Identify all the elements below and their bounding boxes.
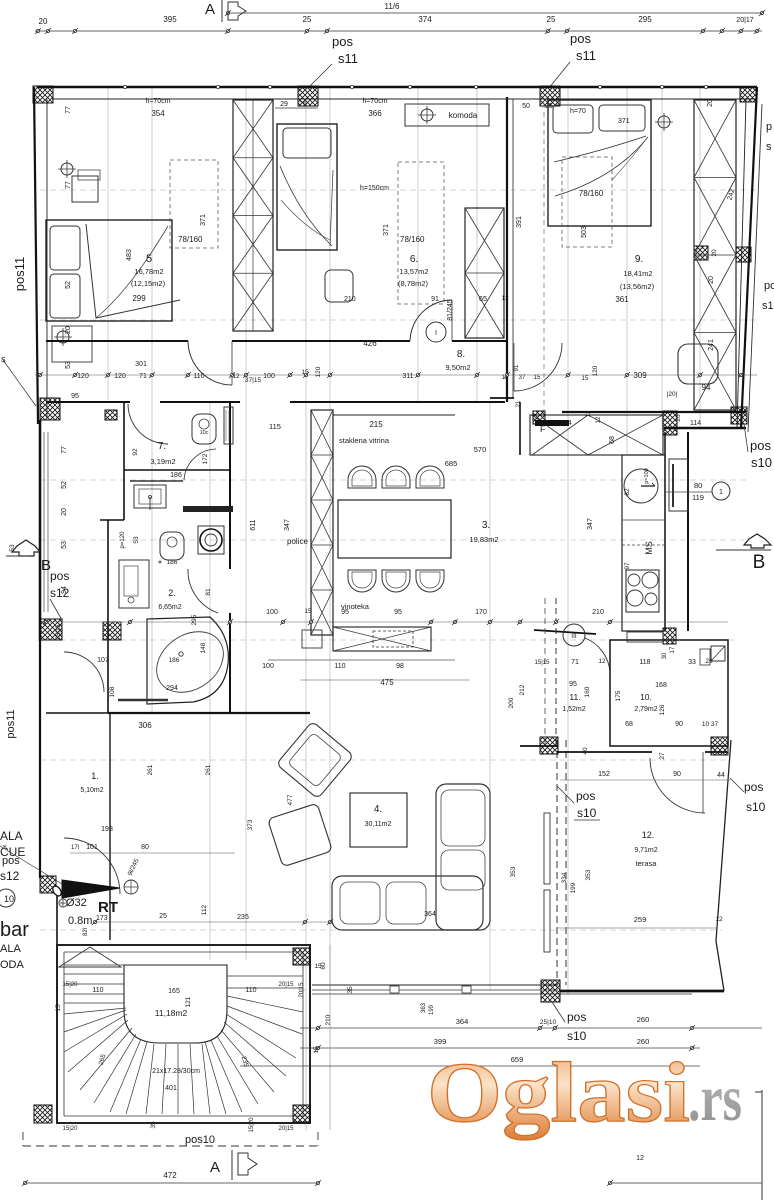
svg-text:198: 198 — [101, 826, 113, 833]
svg-text:A: A — [205, 1, 215, 18]
svg-text:235: 235 — [237, 914, 249, 921]
svg-text:212: 212 — [519, 684, 526, 695]
svg-text:114: 114 — [690, 420, 701, 427]
svg-text:118: 118 — [639, 659, 650, 666]
svg-text:bar: bar — [0, 919, 29, 941]
svg-text:15: 15 — [314, 963, 322, 970]
svg-text:100: 100 — [263, 373, 275, 380]
svg-text:F: F — [540, 424, 546, 434]
outer wall right slanted — [741, 87, 757, 428]
svg-text:10: 10 — [4, 894, 14, 904]
svg-text:94: 94 — [702, 383, 711, 392]
svg-text:186: 186 — [167, 559, 178, 566]
svg-text:29: 29 — [280, 101, 288, 108]
svg-text:12: 12 — [715, 916, 723, 923]
outer wall left — [34, 87, 38, 424]
svg-text:9.: 9. — [635, 254, 643, 265]
posts under room 10-11 — [540, 737, 558, 754]
svg-text:20|15: 20|15 — [279, 1126, 295, 1132]
svg-text:pos: pos — [750, 438, 771, 453]
svg-text:371: 371 — [383, 224, 390, 236]
svg-text:pos: pos — [50, 569, 69, 583]
room9 bottom wall — [562, 411, 746, 413]
svg-text:120: 120 — [315, 366, 322, 377]
room 5 desk and chair — [72, 176, 98, 202]
wall post hatched top-left — [33, 86, 53, 103]
svg-text:3.: 3. — [482, 520, 490, 531]
svg-text:299: 299 — [132, 294, 146, 303]
svg-text:p=100: p=100 — [644, 468, 650, 483]
svg-text:5,10m2: 5,10m2 — [80, 787, 103, 794]
svg-text:11,18m2: 11,18m2 — [155, 1008, 188, 1018]
room9 door arc — [514, 343, 562, 391]
right step wall y428 — [664, 427, 746, 429]
bottom dim line 472 — [25, 1182, 318, 1184]
terrace right wall — [716, 740, 731, 941]
svg-text:15: 15 — [582, 376, 589, 382]
svg-text:20: 20 — [708, 276, 715, 284]
svg-text:37|15: 37|15 — [245, 377, 262, 384]
svg-text:82l: 82l — [83, 928, 89, 936]
post at rail — [541, 980, 560, 1002]
wall post wardrobe mid — [694, 246, 708, 260]
room 11 door arc — [585, 638, 610, 672]
room1 door arc — [64, 652, 104, 692]
room7 door arc b — [184, 449, 216, 480]
svg-text:95: 95 — [71, 393, 79, 400]
svg-text:361: 361 — [615, 295, 629, 304]
room 9 lamp — [658, 116, 670, 128]
bathtub corner — [147, 617, 228, 704]
svg-text:108: 108 — [109, 686, 116, 697]
svg-text:92: 92 — [132, 448, 139, 456]
stairwell posts — [34, 1105, 52, 1123]
svg-text:160: 160 — [584, 686, 591, 697]
pos10 dashed outline — [23, 1145, 318, 1147]
svg-text:100: 100 — [266, 609, 278, 616]
room7 door arc — [128, 404, 168, 444]
svg-text:10 37: 10 37 — [702, 721, 719, 728]
svg-text:40: 40 — [582, 747, 589, 755]
svg-text:165: 165 — [168, 988, 180, 995]
svg-text:100: 100 — [262, 663, 274, 670]
svg-text:s10: s10 — [577, 806, 597, 820]
stair void — [124, 965, 227, 1043]
stair fan left — [64, 1008, 126, 1014]
svg-text:168: 168 — [655, 682, 667, 689]
svg-text:15: 15 — [534, 375, 541, 381]
svg-text:h=70cm: h=70cm — [362, 98, 387, 105]
svg-text:10.: 10. — [640, 692, 652, 702]
svg-text:347: 347 — [587, 518, 594, 530]
svg-text:215: 215 — [369, 420, 383, 429]
room10 fixture — [711, 646, 725, 661]
svg-text:s12: s12 — [0, 869, 20, 883]
svg-text:120: 120 — [114, 373, 126, 380]
svg-text:570: 570 — [474, 445, 487, 454]
svg-text:353: 353 — [585, 869, 592, 880]
svg-text:98: 98 — [396, 663, 404, 670]
room 5 ceiling lamp — [61, 163, 73, 175]
svg-text:12: 12 — [501, 295, 509, 302]
washing machine — [198, 526, 224, 554]
svg-text:20: 20 — [39, 17, 48, 26]
svg-text:77: 77 — [65, 106, 72, 114]
svg-text:s11: s11 — [338, 51, 358, 66]
svg-text:2,79m2: 2,79m2 — [634, 706, 657, 713]
stair treads left horizontals — [64, 973, 124, 975]
svg-text:301: 301 — [135, 361, 147, 368]
svg-text:82: 82 — [624, 488, 631, 496]
svg-text:20|15: 20|15 — [299, 982, 305, 998]
svg-text:8.: 8. — [457, 349, 465, 360]
sofa L — [436, 784, 490, 930]
svg-text:175: 175 — [615, 690, 622, 701]
svg-text:90: 90 — [675, 721, 683, 728]
stair roof triangle — [59, 947, 121, 967]
room 4 label box / coffee table — [350, 793, 407, 847]
room7 toilet — [192, 414, 216, 444]
svg-text:50: 50 — [522, 103, 530, 110]
svg-text:15: 15 — [304, 608, 312, 615]
svg-text:81: 81 — [205, 588, 212, 596]
svg-text:472: 472 — [163, 1171, 177, 1180]
dining table — [338, 500, 451, 558]
svg-text:p: p — [766, 121, 772, 133]
svg-text:395: 395 — [163, 15, 177, 24]
svg-text:107: 107 — [97, 657, 109, 664]
svg-text:119: 119 — [692, 493, 704, 502]
svg-text:364: 364 — [456, 1017, 469, 1026]
svg-text:15|20: 15|20 — [63, 982, 79, 988]
svg-text:97: 97 — [624, 562, 631, 570]
svg-text:ALA: ALA — [0, 943, 21, 955]
terrace 12 left dashed wall — [556, 740, 558, 985]
svg-text:1.: 1. — [91, 771, 99, 781]
svg-text:pos11: pos11 — [5, 709, 17, 738]
svg-text:s: s — [1, 354, 6, 364]
svg-text:81/245: 81/245 — [447, 299, 454, 321]
room 9 wardrobe right — [694, 100, 736, 410]
svg-text:|20|: |20| — [667, 391, 678, 398]
corridor room 8 top wall — [46, 340, 188, 342]
svg-text:25: 25 — [547, 15, 556, 24]
svg-text:366: 366 — [368, 109, 382, 118]
svg-text:terasa: terasa — [636, 859, 658, 868]
svg-text:17l: 17l — [71, 845, 79, 851]
svg-text:33: 33 — [688, 659, 696, 666]
svg-text:199: 199 — [570, 882, 577, 893]
svg-text:Ø32: Ø32 — [66, 897, 87, 909]
svg-text:pos: pos — [332, 34, 353, 49]
svg-text:1: 1 — [719, 489, 723, 496]
svg-text:7.: 7. — [158, 441, 166, 452]
terrace top wall — [520, 745, 557, 747]
kitchen sink — [624, 469, 658, 503]
room5 door arc — [188, 341, 232, 385]
top overall dimension line 1176 — [228, 12, 762, 14]
svg-text:5: 5 — [146, 253, 152, 265]
svg-text:77: 77 — [65, 181, 72, 189]
svg-text:6,65m2: 6,65m2 — [158, 604, 181, 611]
room1 door arc stairs — [64, 838, 120, 894]
svg-text:306: 306 — [138, 721, 152, 730]
svg-text:pos: pos — [567, 1010, 586, 1024]
room 6 bed — [277, 124, 337, 250]
svg-text:78/160: 78/160 — [400, 235, 425, 244]
living bottom rail — [312, 984, 558, 986]
svg-text:95: 95 — [394, 609, 402, 616]
svg-text:19,83m2: 19,83m2 — [469, 535, 498, 544]
svg-text:261: 261 — [147, 764, 154, 775]
svg-text:15|20: 15|20 — [63, 1126, 79, 1132]
svg-text:126: 126 — [659, 704, 666, 715]
svg-text:371: 371 — [618, 118, 630, 125]
svg-text:6.: 6. — [410, 254, 418, 265]
svg-text:20: 20 — [65, 326, 72, 334]
svg-text:295: 295 — [638, 15, 652, 24]
svg-text:12.: 12. — [642, 830, 655, 840]
svg-text:1,52m2: 1,52m2 — [562, 706, 585, 713]
svg-text:260: 260 — [637, 1015, 650, 1024]
left wall post y400 — [40, 398, 60, 420]
svg-text:115: 115 — [269, 422, 281, 431]
svg-text:483: 483 — [126, 249, 133, 261]
svg-text:259: 259 — [634, 915, 647, 924]
svg-text:264: 264 — [560, 420, 572, 427]
outer wall top — [38, 86, 757, 89]
svg-text:371: 371 — [200, 214, 207, 226]
svg-text:s10: s10 — [567, 1029, 587, 1043]
room2 door arc — [188, 569, 218, 613]
svg-text:210: 210 — [344, 296, 356, 303]
living armchair rotated — [276, 721, 353, 799]
svg-text:Oglasi: Oglasi — [427, 1044, 690, 1140]
wall post right slant mid — [736, 247, 751, 262]
sideboard under table — [268, 659, 455, 661]
svg-text:35: 35 — [347, 986, 354, 994]
dims bottom rows — [300, 1027, 762, 1029]
svg-text:152: 152 — [598, 771, 610, 778]
bathroom 7 walls — [123, 402, 125, 470]
terrace door arc — [650, 758, 705, 813]
komoda box — [405, 104, 489, 126]
svg-text:s10: s10 — [746, 800, 766, 814]
svg-text:95: 95 — [569, 681, 577, 688]
svg-text:A: A — [210, 1159, 220, 1176]
svg-text:401: 401 — [165, 1085, 177, 1092]
room 9 closet dashed — [562, 157, 612, 247]
svg-text:311: 311 — [402, 373, 413, 380]
svg-text:364: 364 — [424, 911, 436, 918]
wall post hatched top b — [540, 86, 560, 106]
svg-text:h=70cm: h=70cm — [145, 98, 170, 105]
svg-text:21x17.28/30cm: 21x17.28/30cm — [152, 1068, 200, 1075]
room7 bottom dark wall — [183, 506, 233, 512]
svg-text:426: 426 — [363, 339, 377, 348]
svg-text:9,50m2: 9,50m2 — [445, 363, 470, 372]
svg-text:staklena vitrina: staklena vitrina — [339, 436, 390, 445]
svg-text:s1: s1 — [762, 300, 774, 312]
svg-text:I: I — [435, 330, 437, 337]
kitchen column — [622, 455, 665, 631]
svg-text:295: 295 — [191, 614, 198, 625]
wall post hatched top a — [298, 86, 318, 106]
svg-text:121: 121 — [185, 996, 192, 1007]
post near room7 — [105, 410, 117, 420]
svg-text:91: 91 — [514, 364, 520, 371]
svg-text:12: 12 — [636, 1155, 644, 1162]
svg-text:94: 94 — [61, 586, 68, 594]
svg-text:15|20: 15|20 — [249, 1117, 255, 1133]
svg-text:68: 68 — [609, 436, 616, 444]
svg-text:(12,15m2): (12,15m2) — [131, 279, 166, 288]
svg-text:363: 363 — [421, 1002, 427, 1013]
svg-text:71: 71 — [571, 659, 579, 666]
svg-text:III: III — [571, 633, 577, 640]
svg-text:11.: 11. — [569, 692, 580, 702]
vanity with basin — [134, 485, 166, 508]
svg-text:20: 20 — [711, 249, 718, 257]
svg-text:27: 27 — [659, 752, 666, 760]
svg-text:112: 112 — [201, 904, 208, 915]
svg-text:pos: pos — [576, 789, 595, 803]
right tall cabinet — [669, 459, 688, 511]
svg-text:12: 12 — [596, 416, 602, 423]
svg-text:(13,56m2): (13,56m2) — [620, 282, 655, 291]
svg-text:25: 25 — [545, 103, 553, 110]
svg-text:9,71m2: 9,71m2 — [634, 847, 657, 854]
svg-text:16,78m2: 16,78m2 — [134, 267, 163, 276]
RT radiator assembly — [40, 876, 56, 893]
svg-text:25: 25 — [303, 15, 312, 24]
svg-text:3,19m2: 3,19m2 — [150, 457, 175, 466]
svg-text:334: 334 — [561, 872, 568, 883]
svg-text:374: 374 — [418, 15, 432, 24]
svg-text:25: 25 — [299, 101, 307, 108]
room 9 bed — [548, 100, 651, 226]
svg-text:78/160: 78/160 — [178, 235, 203, 244]
svg-text:53: 53 — [9, 544, 16, 552]
svg-text:110: 110 — [334, 663, 345, 670]
room 1 right wall — [109, 713, 111, 940]
svg-text:475: 475 — [380, 678, 394, 687]
room 5 lamp low — [57, 331, 69, 343]
svg-text:p=120: p=120 — [120, 531, 126, 549]
stair treads bottom verticals — [146, 1044, 154, 1114]
svg-text:25: 25 — [159, 913, 167, 920]
corridor bottom wall — [46, 401, 130, 403]
svg-text:ODA: ODA — [0, 959, 25, 971]
svg-text:78/160: 78/160 — [579, 189, 604, 198]
svg-text:210: 210 — [325, 1014, 332, 1025]
svg-text:25|15: 25|15 — [56, 624, 62, 640]
stair top flight line — [64, 964, 124, 966]
svg-text:199: 199 — [429, 1004, 435, 1015]
svg-text:pos: pos — [744, 780, 763, 794]
svg-text:18,41m2: 18,41m2 — [623, 269, 652, 278]
svg-text:80: 80 — [694, 481, 702, 490]
svg-text:10c: 10c — [200, 430, 209, 436]
svg-text:(8,78m2): (8,78m2) — [398, 279, 429, 288]
svg-text:309: 309 — [633, 371, 647, 380]
svg-text:391: 391 — [516, 216, 523, 228]
svg-text:.rs: .rs — [688, 1062, 742, 1135]
svg-text:20: 20 — [707, 99, 714, 107]
svg-text:35: 35 — [150, 1121, 157, 1129]
top dimension line row — [35, 30, 762, 32]
svg-text:12: 12 — [598, 658, 606, 665]
svg-text:354: 354 — [151, 109, 165, 118]
svg-text:2.: 2. — [168, 588, 176, 598]
left wall posts mid — [40, 619, 62, 640]
svg-text:52: 52 — [61, 481, 68, 489]
construction grid thin lines — [107, 88, 109, 400]
svg-text:148: 148 — [200, 642, 207, 653]
svg-text:15: 15 — [313, 1046, 320, 1054]
wardrobe strip between room5 and 6 — [233, 100, 273, 331]
svg-text:15|15: 15|15 — [535, 660, 551, 666]
svg-text:komoda: komoda — [449, 111, 478, 120]
glass cabinet strip staklena vitrina — [311, 410, 333, 635]
svg-text:police: police — [287, 537, 308, 546]
svg-text:353: 353 — [510, 866, 517, 877]
svg-text:477: 477 — [287, 794, 294, 805]
svg-text:95: 95 — [341, 609, 349, 616]
dining chairs bottom row — [348, 570, 376, 592]
room 2 bathroom walls — [123, 470, 125, 520]
svg-text:pos11: pos11 — [12, 257, 27, 291]
svg-text:17: 17 — [670, 646, 676, 653]
svg-text:110: 110 — [193, 373, 204, 380]
svg-text:s10: s10 — [751, 455, 772, 470]
svg-text:53: 53 — [61, 541, 68, 549]
svg-text:173: 173 — [96, 915, 108, 922]
svg-text:30: 30 — [662, 652, 668, 659]
living room walls upper — [108, 712, 310, 714]
room7 radiator — [224, 407, 233, 444]
svg-text:s11: s11 — [576, 48, 596, 63]
room 10 walls — [610, 640, 728, 746]
svg-text:pos: pos — [570, 31, 591, 46]
svg-text:91: 91 — [431, 296, 439, 303]
B arrow right — [744, 534, 771, 548]
svg-text:186: 186 — [169, 657, 180, 664]
svg-text:90: 90 — [673, 771, 681, 778]
svg-text:120: 120 — [77, 373, 89, 380]
kitchen right walls — [664, 432, 666, 630]
kitchen posts — [533, 411, 545, 424]
svg-text:52: 52 — [65, 281, 72, 289]
svg-text:685: 685 — [445, 459, 458, 468]
svg-text:80: 80 — [141, 844, 149, 851]
wall post hatched top-right — [740, 87, 756, 102]
svg-text:68: 68 — [625, 721, 633, 728]
svg-text:186: 186 — [170, 472, 182, 479]
svg-text:210: 210 — [592, 609, 604, 616]
svg-text:77: 77 — [61, 446, 68, 454]
svg-text:h=150cm: h=150cm — [360, 185, 389, 192]
circle III callout — [563, 624, 585, 646]
left wall room1 — [39, 640, 41, 878]
room 11 walls — [519, 402, 521, 455]
left wall window lines — [43, 432, 45, 612]
svg-text:15: 15 — [55, 1004, 62, 1012]
room 9 armchair — [678, 344, 718, 384]
room6 door arc — [410, 300, 452, 341]
stair fan right — [205, 1042, 226, 1114]
room2 toilet2 — [160, 532, 184, 560]
